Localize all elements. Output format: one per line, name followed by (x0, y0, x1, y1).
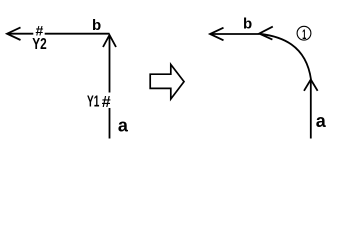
svg-text:Y1: Y1 (87, 94, 99, 111)
svg-text:b: b (243, 16, 252, 33)
svg-text:#: # (102, 94, 111, 111)
svg-text:a: a (118, 116, 129, 136)
svg-text:Y2: Y2 (32, 36, 47, 53)
svg-text:b: b (92, 17, 101, 34)
svg-text:1: 1 (302, 26, 306, 42)
svg-text:a: a (316, 111, 327, 131)
